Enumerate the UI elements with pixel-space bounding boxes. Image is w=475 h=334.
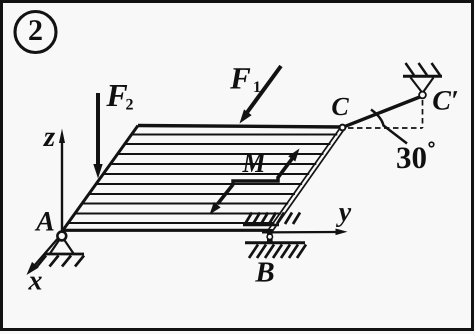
svg-text:2: 2: [126, 97, 134, 114]
svg-text:C: C: [331, 92, 349, 121]
svg-text:z: z: [43, 121, 56, 153]
svg-text:A: A: [34, 207, 55, 238]
svg-text:x: x: [28, 266, 43, 297]
svg-text:F: F: [105, 77, 127, 113]
svg-text:2: 2: [28, 14, 43, 47]
svg-text:1: 1: [253, 79, 261, 96]
svg-text:M: M: [242, 148, 267, 179]
svg-text:C′: C′: [432, 86, 459, 117]
svg-text:B: B: [254, 257, 274, 289]
svg-text:y: y: [336, 197, 352, 228]
svg-text:30: 30: [396, 140, 427, 175]
svg-text:F: F: [229, 61, 251, 96]
